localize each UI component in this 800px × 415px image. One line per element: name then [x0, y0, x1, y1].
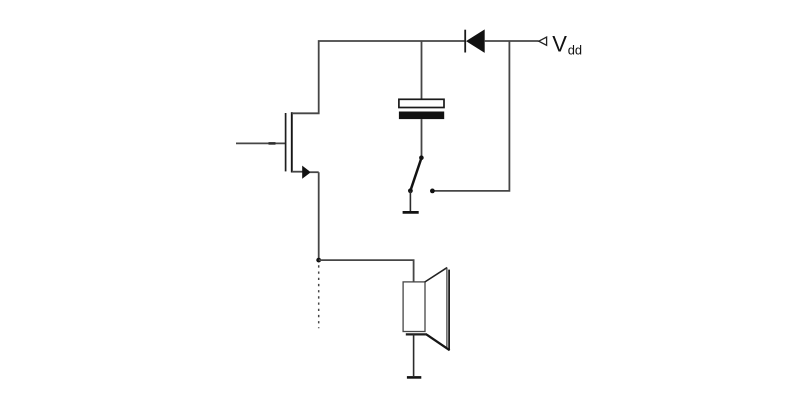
ground under speaker: [407, 376, 421, 379]
wire: small thick dash on gate lead: [269, 142, 276, 145]
transistor Q1 source arrow: [302, 166, 311, 179]
switch S1 right contact dot: [430, 189, 435, 194]
speaker LS1 cone bottom slant: [427, 335, 450, 351]
transistor Q1 gate bar: [285, 113, 287, 171]
wire: gate input lead: [236, 142, 286, 144]
wire: switch stem to ground: [409, 191, 411, 211]
wire: drain lead up to top rail: [292, 41, 465, 113]
transistor Q1 channel bar: [291, 112, 293, 172]
svg-text:dd: dd: [568, 43, 582, 58]
speaker LS1 cone top slant: [425, 268, 447, 282]
diode D1 cathode bar: [464, 30, 466, 53]
node A junction dot: [316, 258, 321, 263]
switch S1 arm: [411, 159, 422, 190]
switch S1 bottom contact dot: [408, 188, 413, 193]
speaker LS1 shadow line: [406, 333, 427, 335]
capacitor C1 top plate: [399, 99, 444, 107]
switch S1 top contact dot: [419, 155, 424, 160]
wire: source lead to corner: [310, 171, 319, 173]
wire: diode to Vdd terminal: [485, 40, 539, 42]
capacitor C1 bottom plate: [399, 112, 444, 120]
diode D1 triangle: [466, 29, 485, 53]
speaker LS1 cone outer right edge: [448, 270, 450, 351]
wire: capacitor bottom lead: [421, 119, 423, 156]
svg-text:V: V: [552, 31, 567, 56]
wire: node to speaker: [319, 260, 414, 282]
wire: source down to node: [318, 172, 320, 260]
transistor Q1 source lead: [292, 171, 303, 173]
wire: right branch down from top rail: [432, 41, 509, 191]
Vdd terminal open triangle: [539, 37, 547, 45]
speaker LS1 body rectangle: [403, 282, 425, 332]
wire: capacitor top lead: [421, 41, 423, 99]
wire: dotted stub below node: [318, 265, 320, 328]
ground under switch: [403, 211, 419, 214]
speaker LS1 cone inner right edge: [446, 268, 448, 349]
wire: speaker bottom lead: [413, 334, 415, 376]
